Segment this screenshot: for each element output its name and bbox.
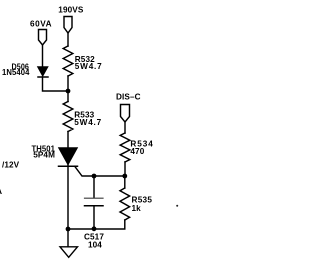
- node dot cap bottom: [92, 226, 97, 231]
- svg-text:190VS: 190VS: [58, 6, 84, 15]
- wire TH501 cathode down to bottom rail: [67, 165, 69, 247]
- svg-text:5W4.7: 5W4.7: [74, 118, 101, 127]
- gate wire of TH501: [75, 166, 125, 176]
- wire cap bottom lead: [93, 206, 95, 229]
- wire R534 to node: [124, 162, 126, 176]
- speck: [176, 205, 178, 207]
- wire R535 to bottom rail: [68, 220, 125, 229]
- svg-text:5P4M: 5P4M: [33, 151, 55, 160]
- svg-text:/12V: /12V: [2, 161, 20, 170]
- wire cap top lead: [93, 176, 95, 198]
- connector 60VA: [39, 30, 47, 46]
- svg-text:1k: 1k: [132, 204, 142, 213]
- resistor R535: [120, 188, 130, 220]
- connector 190VS: [64, 17, 72, 34]
- svg-text:A: A: [0, 186, 2, 196]
- wire R532 to node: [67, 76, 69, 102]
- thyristor TH501 5P4M: [59, 148, 78, 166]
- node junction dot: [66, 89, 71, 94]
- svg-text:104: 104: [88, 241, 102, 250]
- node dot gate rail / R534 / R535: [122, 174, 127, 179]
- svg-text:1N5404: 1N5404: [2, 68, 30, 77]
- resistor R532: [63, 46, 73, 76]
- capacitor C517 plates: [85, 198, 104, 206]
- ground: [60, 247, 78, 257]
- wire R533 to TH501: [67, 132, 69, 149]
- svg-text:470: 470: [130, 147, 144, 156]
- node dot bottom rail: [66, 227, 71, 232]
- svg-text:DIS–C: DIS–C: [116, 92, 141, 101]
- diode D506 1N5404: [38, 67, 48, 77]
- wire 60VA to D506 anode: [42, 45, 44, 67]
- resistor R533: [63, 102, 73, 132]
- wire D506 cathode to node: [43, 77, 69, 91]
- svg-text:5W4.7: 5W4.7: [75, 62, 102, 71]
- wire node to R535: [124, 176, 126, 188]
- svg-text:60VA: 60VA: [30, 19, 52, 28]
- connector DIS-C: [121, 105, 130, 123]
- wire 190VS to R532: [67, 33, 69, 46]
- wire DIS-C to R534: [124, 122, 126, 133]
- node dot cap top: [92, 174, 97, 179]
- resistor R534: [120, 133, 130, 162]
